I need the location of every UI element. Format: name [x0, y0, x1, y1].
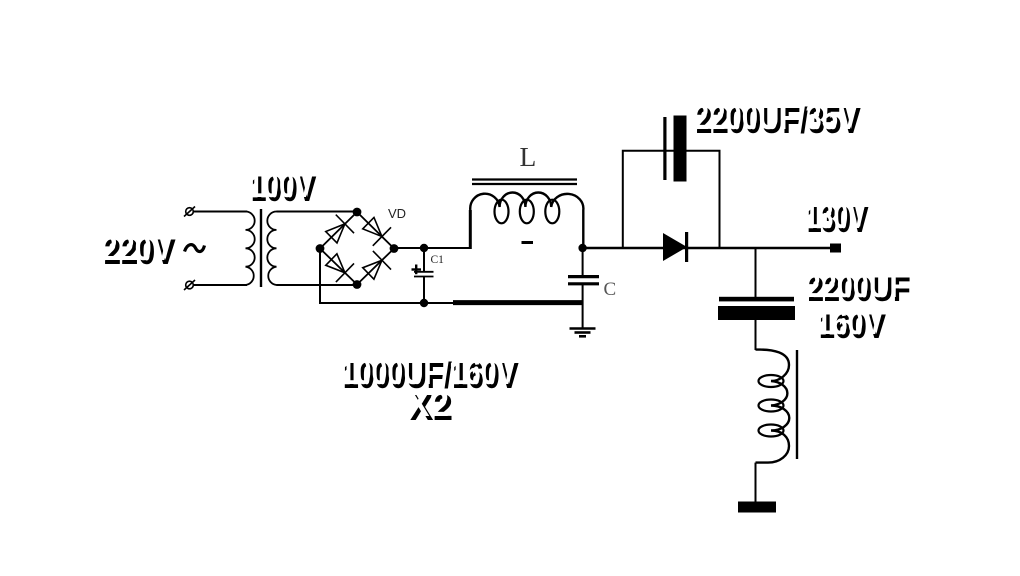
ground plate bottom right	[738, 502, 776, 513]
bridge node right	[390, 244, 399, 253]
bridge diode D2 (top node to right node)	[359, 214, 391, 246]
bridge diode D3 (left node to bottom node)	[322, 250, 354, 282]
wire secondary top lead	[277, 211, 358, 213]
capacitor 2200UF/160V bottom lead	[755, 320, 757, 350]
label 100V	[251, 172, 316, 207]
capacitor 2200UF/160V bottom plate	[718, 306, 795, 320]
bridge node top	[353, 208, 362, 217]
wire main output rail	[583, 247, 830, 249]
bridge diode D4 (bottom node to right node)	[359, 251, 391, 283]
inductor L loop 1	[495, 200, 509, 224]
transformer T1 secondary winding	[267, 212, 283, 286]
inductor L2 bottom lead	[755, 463, 757, 502]
wire primary bottom lead	[194, 284, 248, 286]
terminal input top	[184, 207, 195, 217]
AC tilde symbol	[185, 245, 205, 252]
wire primary top lead	[194, 211, 248, 213]
label VD	[388, 207, 406, 220]
bridge node bottom	[353, 280, 362, 289]
label 1000UF/160V	[343, 358, 519, 394]
capacitor 2200UF/35V left plate	[663, 117, 666, 180]
terminal input bottom	[184, 280, 195, 290]
wire branch down to 160V cap	[755, 248, 757, 297]
capacitor C1 plates	[414, 271, 434, 273]
bridge node left	[316, 244, 325, 253]
inductor L2 loop 1	[759, 375, 784, 387]
bridge diode D1 (left node to top node)	[322, 215, 354, 247]
label 130V	[807, 202, 869, 239]
wire bottom rail thick segment	[453, 300, 583, 305]
label 2200UF	[808, 273, 911, 307]
label 160V	[819, 310, 886, 344]
capacitor 2200UF/160V top plate	[719, 297, 794, 302]
label 220V	[104, 235, 176, 270]
label C1	[431, 255, 444, 267]
wire bridge right node to L lead	[394, 247, 470, 249]
ground below C	[570, 329, 596, 337]
capacitor C plates	[568, 275, 599, 278]
bridge rectifier VD diamond edges	[320, 212, 394, 285]
diode VD2	[663, 233, 687, 261]
label X2	[410, 390, 453, 426]
inductor L2 loop 3	[759, 425, 784, 437]
inductor L polarity minus	[522, 241, 534, 244]
output terminal 130V	[830, 244, 841, 253]
bypass loop wire	[623, 151, 720, 248]
capacitor C top lead	[582, 248, 584, 276]
label L	[520, 143, 537, 171]
wire L left lead vertical	[469, 210, 472, 249]
capacitor C1 bottom lead	[423, 277, 425, 304]
inductor L2 core line	[796, 350, 798, 459]
inductor L loop 3	[545, 200, 559, 224]
node L right	[578, 244, 586, 252]
capacitor C1 polarity plus	[412, 268, 422, 270]
node C1 bottom	[420, 299, 428, 307]
node junction C1 top	[420, 244, 428, 252]
capacitor C bottom lead	[582, 284, 584, 329]
inductor L core lines	[472, 178, 577, 180]
label 2200UF/35V	[696, 103, 861, 140]
wire secondary bottom lead	[277, 284, 358, 286]
inductor L winding	[470, 192, 583, 247]
transformer T1 core	[260, 209, 262, 287]
inductor L2 winding	[756, 350, 790, 463]
inductor L2 loop 2	[759, 400, 784, 412]
inductor L loop 2	[520, 200, 534, 224]
label C	[604, 280, 617, 299]
transformer T1 primary winding	[240, 212, 255, 286]
capacitor C1 top lead	[423, 248, 425, 271]
capacitor 2200UF/35V right plate	[674, 116, 687, 182]
wire bottom rail from bridge left node	[320, 249, 455, 304]
diode VD2 cathode bar	[685, 232, 688, 262]
